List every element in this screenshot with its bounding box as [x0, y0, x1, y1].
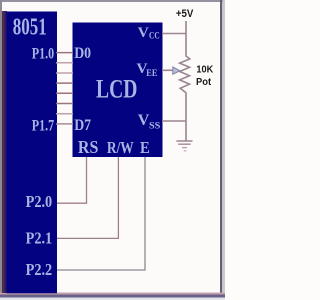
- svg-text:CC: CC: [149, 31, 160, 41]
- svg-text:10K: 10K: [196, 64, 213, 76]
- svg-text:R/W: R/W: [107, 139, 134, 158]
- svg-text:V: V: [138, 24, 149, 41]
- svg-text:EE: EE: [146, 68, 157, 78]
- svg-text:P2.0: P2.0: [26, 193, 53, 211]
- svg-text:D7: D7: [74, 117, 91, 134]
- svg-text:P1.0: P1.0: [32, 45, 54, 63]
- svg-text:RS: RS: [78, 138, 98, 158]
- svg-text:P2.1: P2.1: [26, 229, 53, 247]
- svg-text:+5V: +5V: [176, 8, 194, 21]
- svg-text:D0: D0: [74, 45, 91, 62]
- svg-text:Pot: Pot: [196, 76, 212, 88]
- svg-text:V: V: [138, 112, 150, 129]
- svg-text:LCD: LCD: [96, 74, 137, 103]
- svg-text:E: E: [140, 139, 150, 157]
- svg-text:P2.2: P2.2: [26, 261, 53, 279]
- svg-text:P1.7: P1.7: [32, 117, 54, 135]
- svg-text:8051: 8051: [13, 12, 47, 40]
- svg-text:SS: SS: [149, 121, 161, 132]
